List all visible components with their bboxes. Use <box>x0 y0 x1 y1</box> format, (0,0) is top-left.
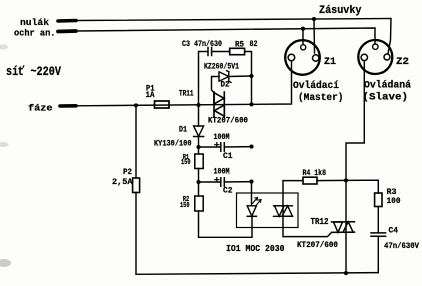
svg-text:TR11: TR11 <box>179 89 194 99</box>
svg-text:nulák: nulák <box>20 17 49 28</box>
wire C3 branch vertical <box>199 52 208 106</box>
svg-text:Ovládaná: Ovládaná <box>364 80 411 92</box>
socket Z1 <box>285 40 320 75</box>
svg-text:D2: D2 <box>221 81 230 90</box>
capacitor C2 <box>199 181 221 183</box>
socket Z2 <box>358 40 392 74</box>
triac TR12 <box>332 222 355 233</box>
node C1 right junction <box>249 145 253 149</box>
wire Z2 left hole down to TR12 <box>346 61 364 274</box>
svg-text:150: 150 <box>181 159 191 167</box>
svg-text:C3 47n/630: C3 47n/630 <box>182 39 222 49</box>
svg-text:1A: 1A <box>146 91 155 100</box>
svg-text:R3: R3 <box>387 188 397 197</box>
terminal stub nulák <box>58 19 76 23</box>
node ochr-Z1 junction <box>301 27 305 31</box>
node fáze-D1 junction <box>196 103 200 107</box>
opto-triac in IO1 <box>274 206 293 217</box>
wire opto-triac top to R4 <box>283 181 303 206</box>
node R4 junction <box>344 178 348 182</box>
wire ochr an. rail <box>76 28 375 44</box>
svg-text:C1: C1 <box>223 152 233 161</box>
svg-text:Ovládací: Ovládací <box>293 80 339 92</box>
svg-text:P2: P2 <box>123 168 132 177</box>
svg-text:100M: 100M <box>214 168 230 177</box>
wire R5 to right vertical <box>245 52 252 105</box>
svg-text:KZ260/5V1: KZ260/5V1 <box>204 63 239 72</box>
svg-text:KT207/600: KT207/600 <box>208 116 248 126</box>
fuse P1 <box>155 101 170 108</box>
wire R2 bottom to LED cathode <box>199 211 253 237</box>
zener D2 <box>219 72 229 81</box>
resistor R4 <box>303 177 317 184</box>
svg-text:(Slave): (Slave) <box>363 92 409 104</box>
node fáze-P2 junction <box>134 103 138 107</box>
node D2-snubber junction <box>249 74 253 78</box>
svg-text:KY130/100: KY130/100 <box>154 139 192 149</box>
wire D2 cathode to node <box>229 75 252 78</box>
wire R3 to C4 <box>377 207 379 233</box>
wire C3 to R5 <box>212 51 230 53</box>
svg-text:C4: C4 <box>389 227 399 236</box>
capacitor C1 <box>199 146 221 148</box>
svg-text:Z2: Z2 <box>396 56 409 68</box>
svg-text:síť ~220V: síť ~220V <box>6 65 61 79</box>
wire R4 to right vertical <box>317 179 346 181</box>
node C1 left junction <box>196 145 200 149</box>
wire nulák to Z1 right hole <box>313 19 316 53</box>
diode D1 <box>198 105 200 126</box>
svg-text:150: 150 <box>180 202 190 210</box>
resistor R2 <box>195 196 203 211</box>
scan smudge left edge lower <box>0 259 11 267</box>
node nulák-Z1 junction <box>312 17 316 21</box>
capacitor C4 <box>371 232 386 234</box>
svg-text:KT207/600: KT207/600 <box>297 240 338 250</box>
svg-text:TR12: TR12 <box>311 217 329 227</box>
svg-text:IO1 MOC 2030: IO1 MOC 2030 <box>226 244 285 254</box>
svg-text:ochr an.: ochr an. <box>14 28 56 39</box>
terminal stub fáze <box>60 104 76 108</box>
optocoupler box IO1 <box>237 193 299 228</box>
svg-text:Zásuvky: Zásuvky <box>319 5 362 17</box>
svg-text:(Master): (Master) <box>298 92 344 104</box>
resistor R5 <box>230 48 245 54</box>
LED in IO1 <box>251 182 253 206</box>
wire D2 anode from gate <box>212 77 220 94</box>
svg-text:47n/630V: 47n/630V <box>384 242 419 251</box>
svg-text:100M: 100M <box>214 133 230 142</box>
wire C4 to bottom rail <box>377 236 379 272</box>
fuse P2 <box>135 105 137 178</box>
resistor R3 <box>375 193 382 207</box>
wire R4 node to R3 <box>346 180 378 193</box>
node C2 left junction <box>196 180 200 184</box>
svg-text:D1: D1 <box>179 126 187 135</box>
svg-text:100: 100 <box>387 197 401 206</box>
terminal stub ochr an. <box>58 29 76 33</box>
wire fáze line <box>76 60 292 106</box>
scan smudge left edge upper <box>0 45 8 50</box>
svg-text:Z1: Z1 <box>324 56 336 68</box>
LED arrows <box>253 198 258 204</box>
svg-text:fáze: fáze <box>28 103 53 114</box>
svg-text:82: 82 <box>250 39 258 49</box>
resistor R1 <box>198 147 200 154</box>
scan smudge left edge middle <box>0 142 9 147</box>
wire ochr an. to Z1 top pin <box>302 29 304 45</box>
node bottom rail TR12 junction <box>344 271 348 275</box>
triac TR11 <box>214 92 224 117</box>
node C2 right junction <box>249 180 253 184</box>
wire opto-triac bottom to TR12 gate <box>283 216 332 236</box>
capacitor C3 <box>207 48 209 56</box>
wire nulák rail <box>76 19 391 54</box>
node fáze-snubber junction <box>249 102 253 106</box>
svg-text:2,5A: 2,5A <box>112 178 133 187</box>
svg-text:C2: C2 <box>223 187 233 196</box>
wire P2 to bottom rail <box>136 193 378 275</box>
